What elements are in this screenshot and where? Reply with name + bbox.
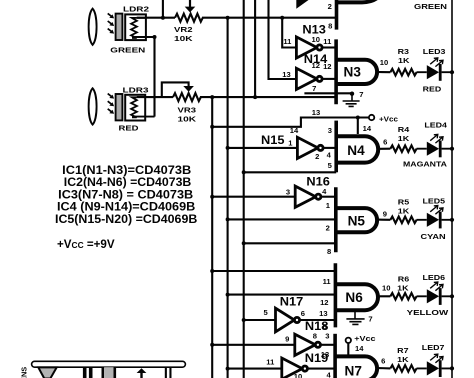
potentiometer VR2 bbox=[175, 14, 203, 22]
LDR2 window bar bbox=[116, 14, 123, 40]
svg-text:+Vcc: +Vcc bbox=[354, 334, 375, 343]
resistor R5 1K bbox=[390, 217, 416, 224]
svg-text:13: 13 bbox=[312, 108, 320, 117]
bus from top (blue channel) bbox=[243, 0, 245, 378]
light arrow up bbox=[137, 368, 147, 373]
svg-text:3: 3 bbox=[286, 188, 290, 197]
ground (N6 / pin 7) bbox=[354, 311, 356, 319]
svg-text:IC3(N7-N8) = CD4073B: IC3(N7-N8) = CD4073B bbox=[58, 188, 193, 201]
sensor tube (mechanical view, cut at bottom edge) bbox=[32, 361, 186, 367]
svg-text:3: 3 bbox=[328, 126, 332, 135]
svg-text:YELLOW: YELLOW bbox=[407, 308, 449, 317]
svg-text:10: 10 bbox=[382, 284, 390, 293]
wire N6 output pin 10 bbox=[377, 295, 390, 297]
wire from top bus to inverter N14 input bbox=[269, 0, 297, 79]
wire green bus to gate N5 pin 2 bbox=[228, 218, 336, 220]
svg-text:12: 12 bbox=[311, 61, 319, 70]
wire LDR2 to VR2 to gate N2 column bbox=[137, 17, 337, 19]
filter block bbox=[102, 367, 105, 378]
svg-text:14: 14 bbox=[290, 126, 299, 135]
VR3 wiper bracket from LDR3 node bbox=[162, 82, 189, 97]
svg-text:N16: N16 bbox=[306, 175, 330, 189]
svg-text:N17: N17 bbox=[280, 295, 304, 309]
svg-text:CYAN: CYAN bbox=[421, 232, 446, 241]
LED cathode bus (right) bbox=[451, 0, 453, 378]
LDR2 body bbox=[125, 14, 146, 40]
LDR2 resistor zigzag bbox=[131, 18, 137, 38]
svg-text:8: 8 bbox=[328, 22, 332, 31]
LED4 bbox=[417, 134, 453, 157]
wire red bus to gate N6 pin 11 bbox=[212, 270, 335, 272]
svg-text:N15: N15 bbox=[261, 133, 285, 147]
svg-text:13: 13 bbox=[319, 309, 327, 318]
svg-text:9: 9 bbox=[285, 334, 289, 343]
svg-text:11: 11 bbox=[283, 37, 292, 46]
wire N3 output pin 10 bbox=[377, 71, 390, 73]
svg-text:N3: N3 bbox=[344, 65, 362, 80]
LDR2 top stub bbox=[137, 17, 146, 19]
svg-text:10K: 10K bbox=[174, 34, 193, 43]
svg-text:GREEN: GREEN bbox=[414, 2, 447, 11]
svg-text:LDR3: LDR3 bbox=[123, 86, 149, 95]
svg-text:7: 7 bbox=[312, 84, 316, 93]
lens holder funnel bbox=[38, 367, 56, 378]
resistor R4 1K bbox=[390, 145, 416, 152]
svg-text:VR2: VR2 bbox=[174, 25, 193, 34]
svg-text:IC1(N1-N3)=CD4073B: IC1(N1-N3)=CD4073B bbox=[62, 164, 191, 177]
LDR3 window bar bbox=[116, 94, 123, 120]
wire LDR3 to VR3 to gate N3 pin 13 bbox=[137, 96, 336, 98]
svg-text:6: 6 bbox=[383, 137, 387, 146]
wire N17 out to gate N6 pin 13 bbox=[300, 319, 336, 321]
AND gate N3 bbox=[334, 39, 338, 104]
svg-text:14: 14 bbox=[355, 344, 364, 353]
svg-text:1K: 1K bbox=[398, 207, 410, 216]
svg-text:R3: R3 bbox=[398, 47, 409, 56]
svg-text:1K: 1K bbox=[397, 283, 409, 292]
slit pair bbox=[165, 367, 167, 378]
svg-text:RED: RED bbox=[119, 124, 140, 133]
svg-text:RED: RED bbox=[423, 84, 442, 93]
svg-text:13: 13 bbox=[321, 350, 329, 359]
svg-text:LED3: LED3 bbox=[423, 47, 446, 56]
AND gate N2 (partial at top edge) bbox=[335, 0, 339, 30]
svg-text:N5: N5 bbox=[348, 213, 366, 228]
LDR3 body bbox=[125, 95, 145, 121]
svg-text:LED5: LED5 bbox=[423, 196, 446, 205]
light arrows into LDR3 bbox=[108, 94, 114, 99]
svg-text:6: 6 bbox=[381, 356, 385, 365]
junction LDR2 bottom node bbox=[153, 35, 157, 39]
svg-text:+VCC =+9V: +VCC =+9V bbox=[57, 238, 115, 251]
lens (top, green channel) bbox=[89, 9, 97, 45]
svg-text:LED7: LED7 bbox=[422, 343, 445, 352]
node RED bus (VR3 junction) vertical bbox=[211, 97, 213, 378]
svg-text:N4: N4 bbox=[347, 143, 365, 158]
svg-text:VR3: VR3 bbox=[178, 105, 197, 114]
svg-text:7: 7 bbox=[359, 90, 363, 99]
LED6 bbox=[417, 282, 453, 305]
wire N7 output pin 6 bbox=[377, 367, 390, 369]
svg-text:LED4: LED4 bbox=[424, 120, 448, 129]
VR2 wiper arrow from top bbox=[189, 0, 191, 7]
svg-text:+Vcc: +Vcc bbox=[379, 115, 398, 124]
svg-text:2: 2 bbox=[315, 152, 319, 161]
svg-text:9: 9 bbox=[383, 210, 387, 219]
AND gate N7 (partial at bottom edge) bbox=[333, 334, 337, 378]
wire N19 out to gate N7 bbox=[308, 368, 336, 370]
svg-text:IC4 (N9-N14)=CD4069B: IC4 (N9-N14)=CD4069B bbox=[57, 201, 195, 214]
svg-text:6: 6 bbox=[301, 309, 305, 318]
svg-text:1K: 1K bbox=[397, 355, 409, 364]
wire junction to inverter N13 input bbox=[280, 16, 284, 20]
svg-text:LED6: LED6 bbox=[423, 273, 446, 282]
svg-text:10K: 10K bbox=[178, 115, 197, 124]
svg-text:14: 14 bbox=[363, 124, 372, 133]
wire red bus to N18 input bbox=[212, 344, 295, 346]
wire N5 output pin 9 bbox=[377, 219, 390, 221]
wire bus to gate N5 pin 8 bbox=[244, 242, 336, 244]
svg-text:R7: R7 bbox=[397, 346, 408, 355]
resistor R6 1K bbox=[390, 293, 416, 300]
svg-text:LENS: LENS bbox=[20, 367, 29, 378]
svg-text:LDR2: LDR2 bbox=[123, 5, 149, 14]
LED5 bbox=[417, 206, 453, 229]
wire green bus to N19 input bbox=[228, 368, 282, 370]
svg-text:R5: R5 bbox=[398, 198, 409, 207]
svg-text:10: 10 bbox=[311, 35, 319, 44]
LDR3 bottom stub bbox=[132, 116, 155, 118]
AND gate N6 bbox=[334, 263, 338, 327]
svg-text:R6: R6 bbox=[398, 274, 409, 283]
wire N14 out to gate N3 pin 12 bbox=[322, 78, 336, 80]
wire green bus to gate N6 pin 12 bbox=[228, 294, 336, 296]
svg-text:8: 8 bbox=[313, 332, 317, 341]
svg-text:10: 10 bbox=[380, 58, 388, 67]
LED3 bbox=[417, 58, 453, 81]
wire bus to gate N4 pin 5 bbox=[244, 171, 337, 173]
wire N18 out to gate N7 pin 3 bbox=[321, 344, 336, 346]
svg-text:12: 12 bbox=[320, 298, 328, 307]
svg-text:10: 10 bbox=[294, 372, 302, 378]
svg-text:IC5(N15-N20) =CD4069B: IC5(N15-N20) =CD4069B bbox=[55, 213, 197, 226]
resistor R3 1K bbox=[390, 69, 416, 76]
LDR2 bottom stub bbox=[132, 36, 155, 38]
light arrows into LDR2 bbox=[108, 13, 114, 18]
wire N16 out to gate N5 pin 1 bbox=[321, 196, 336, 198]
svg-text:13: 13 bbox=[282, 70, 290, 79]
wire N4 output pin 6 bbox=[378, 148, 391, 150]
AND gate N5 bbox=[334, 187, 338, 252]
node GREEN bus (VR2 junction) vertical bbox=[227, 18, 229, 378]
wire N15 out to gate N4 pin 4 bbox=[323, 147, 336, 149]
resistor R7 1K bbox=[390, 365, 416, 372]
wire red bus to N16 input bbox=[212, 196, 295, 198]
svg-text:7: 7 bbox=[368, 315, 372, 324]
svg-text:IC2(N4-N6) =CD4073B: IC2(N4-N6) =CD4073B bbox=[64, 176, 191, 189]
wire N13 out to gate N3 pin 11 bbox=[322, 46, 336, 48]
svg-text:MAGANTA: MAGANTA bbox=[403, 159, 448, 168]
baffle pair bbox=[83, 368, 87, 378]
potentiometer VR3 bbox=[173, 93, 201, 101]
svg-text:11: 11 bbox=[323, 37, 332, 46]
svg-text:12: 12 bbox=[323, 62, 331, 71]
LDR3 resistor zigzag bbox=[131, 97, 137, 117]
svg-text:N7: N7 bbox=[345, 364, 362, 378]
svg-text:N6: N6 bbox=[345, 290, 363, 305]
svg-text:GREEN: GREEN bbox=[110, 45, 145, 54]
wire bus to N17 input bbox=[244, 319, 276, 321]
svg-text:2: 2 bbox=[328, 2, 332, 11]
wire LDR2 bottom to LDR3 top bbox=[153, 37, 155, 117]
+Vcc rail for N7 (pin 14) bbox=[346, 338, 351, 343]
svg-text:8: 8 bbox=[327, 247, 331, 256]
svg-text:11: 11 bbox=[323, 277, 332, 286]
lens (bottom, red channel) bbox=[89, 88, 97, 124]
wire junction vertical from top to LDR2/VR2 wire bbox=[162, 0, 164, 18]
bus from top to VR3 node bbox=[254, 0, 256, 97]
LED7 bbox=[417, 354, 453, 377]
svg-text:1K: 1K bbox=[398, 134, 410, 143]
svg-text:3: 3 bbox=[325, 332, 329, 341]
svg-text:11: 11 bbox=[266, 358, 275, 367]
svg-text:1K: 1K bbox=[398, 56, 410, 65]
AND gate N4 bbox=[334, 121, 338, 173]
wire green bus to N15 input bbox=[228, 147, 298, 149]
svg-text:2: 2 bbox=[326, 224, 330, 233]
svg-text:R4: R4 bbox=[398, 125, 410, 134]
inverter N11 (partial at top edge) bbox=[296, 0, 308, 9]
